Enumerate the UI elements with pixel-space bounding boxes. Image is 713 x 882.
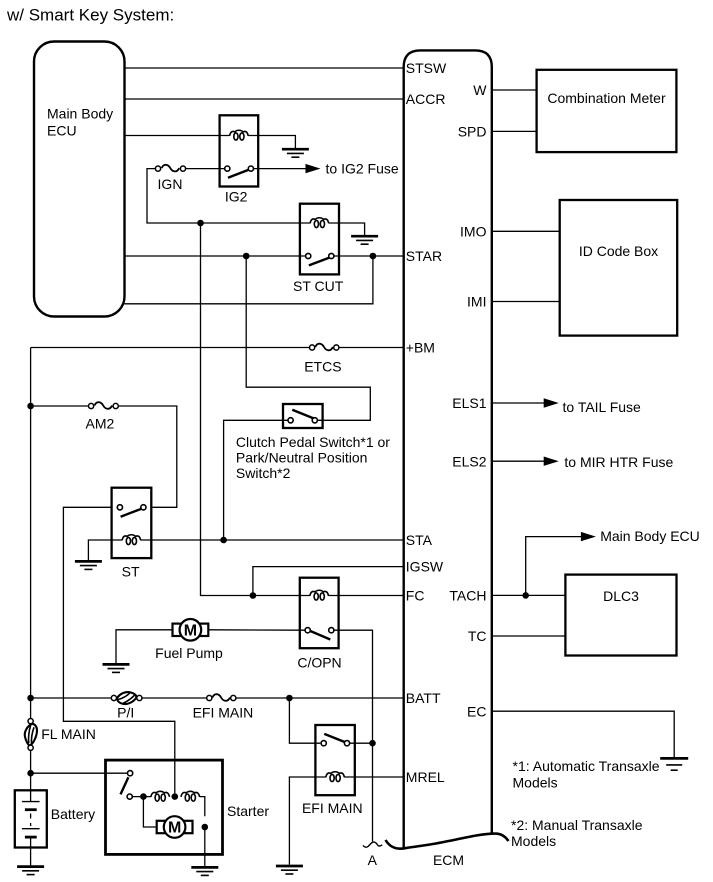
wire EFI MAIN relay switch right to A wire: [350, 742, 373, 744]
wire IGN fuse right to IG2 switch: [186, 168, 225, 170]
wire ST CUT coil to ground: [329, 223, 365, 235]
ECM pin labels right: [449, 82, 487, 719]
svg-text:AM2: AM2: [86, 415, 115, 431]
relay ST CUT switch: [306, 253, 334, 265]
svg-text:EFI MAIN: EFI MAIN: [193, 705, 254, 721]
ID Code Box: [560, 200, 678, 336]
svg-text:IMO: IMO: [460, 223, 487, 239]
wire fuel pump left to ground: [116, 630, 172, 663]
Main Body ECU box: [34, 42, 125, 317]
node STAR clutch branch: [243, 253, 250, 260]
svg-text:SPD: SPD: [458, 124, 487, 140]
wire IMO to ID Code Box: [492, 230, 560, 232]
arrow to MIR HTR Fuse: [544, 457, 559, 466]
relay ST CUT box: [300, 204, 339, 275]
svg-text:Main Body: Main Body: [47, 106, 113, 122]
node STAR ECM side: [370, 253, 377, 260]
wire ACCR from Main Body ECU to ECM: [125, 98, 404, 100]
wire ST coil left to ground: [88, 540, 122, 560]
wire EC to ground: [492, 711, 674, 757]
svg-text:P/I: P/I: [117, 705, 134, 721]
motor Fuel Pump: [173, 619, 209, 641]
node starter motor right: [202, 824, 209, 831]
wire clutch switch right leg up to STAR node: [246, 256, 370, 420]
svg-text:EC: EC: [467, 703, 486, 719]
wire AM2 branch to ST switch: [31, 405, 89, 407]
svg-text:STSW: STSW: [406, 60, 447, 76]
wire Main Body ECU lower output up to STAR node: [125, 256, 373, 304]
node battery feed: [27, 770, 34, 777]
svg-text:A: A: [368, 852, 378, 868]
node EFI switch output: [369, 740, 376, 747]
fuse IGN: [155, 165, 185, 172]
svg-text:Park/Neutral Position: Park/Neutral Position: [236, 450, 368, 466]
ground EC: [660, 758, 688, 770]
svg-text:ST: ST: [122, 563, 140, 579]
switch Clutch Pedal box: [283, 404, 323, 428]
wire TACH to DLC3: [492, 594, 566, 596]
relay EFI MAIN switch: [321, 734, 350, 746]
relay ST coil: [122, 535, 141, 545]
svg-text:W: W: [473, 82, 487, 98]
fuse EFI MAIN: [207, 694, 236, 701]
ground starter motor: [191, 867, 218, 875]
wire ELS2 to arrow: [492, 460, 545, 462]
DLC3 box: [565, 575, 676, 656]
wire SPD to Combination Meter: [492, 130, 537, 132]
relay IG2 coil: [230, 130, 249, 140]
svg-text:EFI MAIN: EFI MAIN: [302, 800, 363, 816]
wire A down to break: [372, 743, 374, 841]
ground IG2: [282, 149, 309, 157]
node IGSW branch: [250, 592, 257, 599]
wire BATT line right segment to ECM: [236, 697, 404, 699]
wire STA from ST coil to ECM: [141, 539, 404, 541]
relay ST switch: [117, 505, 146, 517]
ground EFI MAIN coil: [276, 866, 303, 874]
svg-text:to TAIL Fuse: to TAIL Fuse: [563, 399, 642, 415]
node BATT EFI relay branch: [286, 695, 293, 702]
svg-text:Main Body ECU: Main Body ECU: [600, 528, 700, 544]
wire TC to DLC3: [492, 635, 566, 637]
svg-text:C/OPN: C/OPN: [297, 654, 341, 670]
svg-text:Starter: Starter: [227, 803, 269, 819]
svg-text:TACH: TACH: [449, 588, 486, 604]
arrow to TAIL Fuse: [544, 398, 559, 407]
relay C/OPN box: [300, 578, 339, 649]
wire BATT line left segment with P/I fuse: [31, 697, 112, 699]
wire starter switch to solenoid: [132, 796, 151, 798]
relay C/OPN coil: [310, 590, 329, 600]
svg-text:Battery: Battery: [51, 806, 95, 822]
wire FC net from ST CUT coil line down to C troOPN coil: [201, 223, 310, 596]
wire W to Combination Meter: [492, 89, 537, 91]
svg-text:IGN: IGN: [158, 176, 183, 192]
svg-text:to MIR HTR Fuse: to MIR HTR Fuse: [564, 454, 673, 470]
svg-text:Models: Models: [513, 775, 558, 791]
Starter box: [106, 760, 223, 854]
svg-text:+BM: +BM: [406, 340, 435, 356]
svg-text:Clutch Pedal Switch*1 or: Clutch Pedal Switch*1 or: [236, 434, 390, 450]
node STA clutch join: [220, 537, 227, 544]
relay EFI MAIN coil: [326, 772, 345, 782]
arrow Main Body ECU: [581, 532, 596, 541]
ECM pin labels left: [406, 60, 447, 785]
relay EFI MAIN box: [315, 725, 354, 795]
ground ST coil: [75, 561, 102, 569]
wire ST switch left to starter solenoid: [63, 507, 174, 793]
svg-text:*2: Manual Transaxle: *2: Manual Transaxle: [511, 817, 643, 833]
node starter solenoid middle: [172, 793, 179, 800]
wire A break squiggle: [363, 842, 382, 847]
svg-text:ELS1: ELS1: [452, 395, 486, 411]
starter solenoid coil 2: [181, 791, 200, 801]
wire clutch switch left leg down to STA: [224, 420, 288, 540]
arrow to IG2 Fuse: [306, 164, 321, 173]
svg-text:Models: Models: [511, 833, 556, 849]
svg-text:*1: Automatic Transaxle: *1: Automatic Transaxle: [513, 758, 660, 774]
svg-text:ELS2: ELS2: [452, 453, 486, 469]
relay ST CUT coil: [310, 218, 329, 228]
wire battery bottom lead to ground: [30, 837, 32, 865]
motor Starter: [157, 816, 193, 838]
wire BATT line middle segment: [142, 697, 207, 699]
svg-text:IMI: IMI: [467, 294, 486, 310]
fuse P/I fusible link: [111, 692, 142, 704]
svg-text:to IG2 Fuse: to IG2 Fuse: [326, 161, 399, 177]
svg-text:ECM: ECM: [433, 852, 464, 868]
wire IG2 coil to ground: [248, 136, 295, 149]
wire BATT branch down to EFI MAIN relay switch: [289, 698, 320, 743]
ECM bottom break wavy line: [386, 834, 509, 849]
fuse ETCS: [310, 344, 339, 351]
wire +BM line with ETCS fuse: [31, 347, 310, 349]
wire starter solenoid to motor right: [200, 797, 205, 817]
ECM connector body: [404, 50, 492, 847]
switch Clutch Pedal contacts: [288, 410, 317, 423]
node TACH branch: [522, 592, 529, 599]
starter solenoid coil 1: [151, 791, 170, 801]
wire starter motor right down to ground: [204, 827, 206, 866]
wire C/OPN switch right down to EFI MAIN relay switch: [334, 630, 372, 743]
relay ST box: [112, 488, 152, 558]
node starter solenoid left: [140, 793, 147, 800]
svg-text:ST CUT: ST CUT: [293, 278, 344, 294]
svg-text:STAR: STAR: [406, 248, 442, 264]
wire left rail vertical: [30, 348, 32, 719]
fuse AM2: [89, 402, 119, 409]
wire starter motor left to solenoid node: [143, 797, 156, 827]
node AM2 branch: [27, 403, 34, 410]
svg-text:ETCS: ETCS: [304, 359, 341, 375]
wire C/OPN coil to ECM FC: [329, 595, 404, 597]
wire STAR segment Main Body ECU to ST CUT switch: [125, 255, 306, 257]
relay IG2 box: [220, 115, 259, 186]
svg-text:w/ Smart Key System:: w/ Smart Key System:: [6, 6, 174, 25]
svg-text:FC: FC: [406, 588, 425, 604]
svg-text:FL MAIN: FL MAIN: [41, 726, 96, 742]
wire battery top lead: [30, 790, 32, 801]
ground ST CUT: [351, 236, 378, 244]
svg-text:IG2: IG2: [225, 188, 248, 204]
ground fuel pump: [103, 664, 130, 672]
wire EFI MAIN relay coil to ECM MREL: [344, 776, 403, 778]
Combination Meter box: [537, 70, 677, 152]
svg-text:ID Code Box: ID Code Box: [579, 243, 658, 259]
svg-text:MREL: MREL: [406, 769, 445, 785]
note automatic transaxle: [513, 758, 660, 791]
fuse FL MAIN fusible link: [25, 719, 37, 751]
battery cells: [22, 802, 40, 838]
svg-text:DLC3: DLC3: [603, 588, 639, 604]
ground battery: [17, 867, 44, 875]
svg-text:Combination Meter: Combination Meter: [547, 90, 666, 106]
svg-text:BATT: BATT: [406, 690, 441, 706]
svg-text:STA: STA: [406, 532, 433, 548]
wire STSW from Main Body ECU to ECM: [125, 67, 404, 69]
wire IGSW branch: [253, 567, 404, 596]
Battery box: [15, 790, 47, 847]
wire STAR segment ST CUT switch to ECM: [334, 255, 404, 257]
node IGN/ST CUT coil branch: [197, 220, 204, 227]
svg-text:ACCR: ACCR: [406, 91, 446, 107]
svg-text:Switch*2: Switch*2: [236, 465, 291, 481]
wire ELS1 to arrow: [492, 402, 545, 404]
relay IG2 switch: [225, 166, 254, 178]
wire fuel pump to C/OPN switch: [209, 629, 305, 631]
wire IGN fuse left leg down to ST CUT coil line: [147, 169, 310, 223]
node BATT left rail: [27, 695, 34, 702]
wire TACH branch up to Main Body ECU arrow: [526, 537, 582, 596]
wire EFI MAIN relay coil left to ground: [289, 777, 325, 865]
svg-text:ECU: ECU: [47, 123, 77, 139]
wire Main Body ECU to IG2 coil: [125, 135, 230, 137]
label Clutch Pedal Switch note: [236, 434, 390, 481]
wire IMI to ID Code Box: [492, 301, 560, 303]
starter switch: [121, 771, 133, 800]
wire battery feed to starter switch: [31, 772, 128, 774]
wire IG2 switch to arrow to IG2 Fuse: [254, 168, 308, 170]
relay C/OPN switch: [305, 628, 334, 640]
svg-text:Fuel Pump: Fuel Pump: [155, 645, 223, 661]
svg-text:TC: TC: [468, 628, 487, 644]
svg-text:IGSW: IGSW: [406, 559, 444, 575]
note manual transaxle: [511, 817, 643, 849]
